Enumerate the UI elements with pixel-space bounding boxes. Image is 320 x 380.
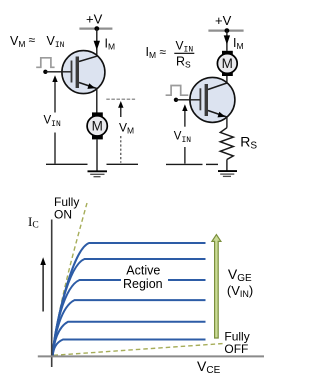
input pulse symbol c2 xyxy=(166,86,189,96)
input pulse symbol c1 xyxy=(36,58,54,68)
Q1 collector lead xyxy=(79,56,97,61)
motor M1 top brush xyxy=(92,112,103,117)
junction dot c2 xyxy=(225,28,230,33)
gate node dot c1 xyxy=(43,70,47,74)
motor M1 body xyxy=(87,116,107,136)
Q1 emitter lead xyxy=(79,83,97,89)
svg-text:+V: +V xyxy=(86,12,103,27)
IC direction arrow xyxy=(42,262,44,312)
IC curve 3 xyxy=(53,280,206,356)
bottom rail left c1 xyxy=(46,163,88,165)
Q2 emitter lead xyxy=(208,111,227,118)
Q1 main bar xyxy=(76,57,79,89)
motor M2 bottom brush xyxy=(222,72,233,76)
IGBT Q1 body xyxy=(62,51,105,94)
gate node dot c2 xyxy=(174,98,178,102)
current arrow IM xyxy=(94,41,100,50)
wire emitter to resistor xyxy=(226,117,228,128)
motor M2 body xyxy=(217,54,237,74)
svg-text:≈: ≈ xyxy=(29,33,36,47)
wire motor to ground xyxy=(96,139,98,171)
Q1 gate bar xyxy=(71,61,73,83)
wire +V to collector xyxy=(96,29,98,57)
svg-text:M: M xyxy=(222,56,233,71)
svg-text:OFF: OFF xyxy=(224,342,248,356)
bottom rail right c1 xyxy=(107,163,139,165)
IC curve 2 xyxy=(53,259,206,356)
motor M1 bottom brush xyxy=(92,135,103,140)
IC curve 4 xyxy=(53,300,206,356)
wire emitter to motor xyxy=(96,89,98,113)
current arrow IM c2 xyxy=(224,35,230,44)
y axis xyxy=(51,220,53,368)
IC curve 6 xyxy=(53,340,206,356)
Q2 main bar xyxy=(205,84,208,116)
wire +V to motor c2 xyxy=(226,31,228,51)
gate wire c1 xyxy=(45,71,70,73)
VIN measure arrow c2 xyxy=(184,108,186,127)
Q2 emitter arrowhead xyxy=(218,112,226,118)
fully-off dashed line xyxy=(54,343,226,355)
ground G2 xyxy=(218,170,237,172)
svg-text:M: M xyxy=(92,119,103,134)
gate wire c2 xyxy=(176,99,200,101)
junction dot xyxy=(94,26,99,31)
x axis xyxy=(38,355,264,357)
active region text mask xyxy=(121,277,168,290)
bottom rail c2 xyxy=(166,163,203,165)
VM measure top reference line xyxy=(106,98,135,100)
VM measure arrow xyxy=(120,105,122,118)
+V rail xyxy=(79,28,112,30)
svg-text:Active: Active xyxy=(126,264,160,278)
resistor RS xyxy=(220,128,233,160)
fully-on boundary dashed curve xyxy=(53,203,87,356)
wire resistor to ground xyxy=(226,160,228,172)
motor M2 top brush xyxy=(222,51,233,55)
IC curve 1 xyxy=(53,243,206,356)
svg-text:ON: ON xyxy=(54,207,72,221)
+V rail c2 xyxy=(208,30,243,32)
VGE sweep arrow xyxy=(212,235,221,338)
svg-text:Region: Region xyxy=(123,277,163,291)
Q2 collector lead xyxy=(208,83,227,90)
svg-text:+V: +V xyxy=(215,13,232,28)
Q1 emitter arrowhead xyxy=(87,83,95,89)
VIN measure arrow c1 xyxy=(54,79,56,113)
svg-text:IM ≈: IM ≈ xyxy=(146,45,167,60)
Q2 gate bar xyxy=(200,88,202,110)
IC curve 5 xyxy=(53,322,206,356)
wire motor to Q2 xyxy=(226,76,228,83)
ground G1 xyxy=(88,170,108,172)
IGBT Q2 body xyxy=(190,77,235,122)
